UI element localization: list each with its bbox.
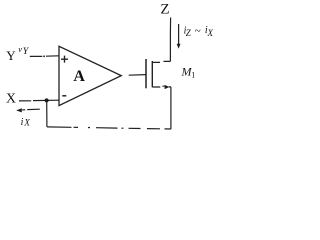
wire bottom bus dash-dot	[47, 127, 171, 129]
svg-text:X: X	[207, 28, 214, 38]
svg-text:Y: Y	[23, 46, 30, 57]
op-amp minus sign	[62, 95, 66, 97]
node X junction	[45, 98, 49, 102]
wire Y input	[30, 55, 59, 58]
op-amp U1 triangle	[59, 46, 121, 105]
svg-text:Z: Z	[160, 2, 169, 18]
svg-text:v: v	[18, 44, 22, 54]
svg-text:~: ~	[195, 25, 201, 37]
op-amp plus sign	[61, 56, 68, 63]
svg-text:Z: Z	[186, 28, 192, 38]
transistor M1 source arrow	[165, 85, 170, 89]
wire Y input dot	[43, 55, 45, 57]
svg-text:A: A	[73, 68, 85, 85]
wire op-amp output to gate	[129, 74, 146, 77]
transistor M1 channel bar	[151, 61, 153, 87]
current arrow iZ	[178, 24, 180, 45]
svg-text:1: 1	[191, 71, 195, 80]
wire X input	[19, 99, 59, 102]
svg-text:Y: Y	[6, 48, 16, 63]
current arrow iX	[22, 108, 40, 111]
svg-text:X: X	[6, 90, 16, 105]
svg-text:X: X	[23, 118, 30, 128]
wire X junction down	[46, 100, 48, 127]
wire source riser	[170, 87, 172, 129]
transistor M1 gate bar	[145, 59, 147, 88]
transistor M1 source lead	[152, 85, 171, 88]
svg-text:i: i	[21, 117, 24, 128]
transistor M1 drain lead	[152, 61, 170, 62]
wire Z drain up	[169, 18, 171, 62]
